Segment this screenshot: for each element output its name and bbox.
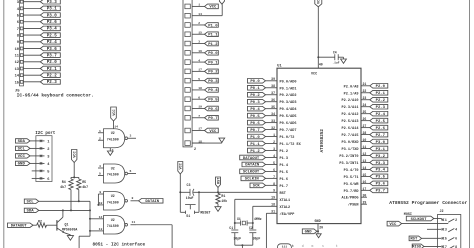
svg-text:9: 9 xyxy=(99,190,101,194)
I2C port pin 2 xyxy=(30,147,50,152)
node P3.4 xyxy=(370,167,388,173)
svg-text:P2.5: P2.5 xyxy=(47,34,58,38)
node P3.3 xyxy=(370,160,388,166)
node VCC at X1 xyxy=(205,128,219,134)
svg-text:SCL: SCL xyxy=(18,148,26,152)
U1 pin 26 P2.5/A13 xyxy=(341,117,369,124)
svg-text:18: 18 xyxy=(198,87,202,90)
wire RST flag stem xyxy=(217,188,219,193)
svg-text:P0.5: P0.5 xyxy=(250,115,260,119)
U1 pin 3 P1.2 xyxy=(266,147,289,154)
svg-text:5: 5 xyxy=(99,172,101,176)
connector J2 body xyxy=(438,210,461,248)
svg-text:P3.4: P3.4 xyxy=(376,169,386,173)
wire RST net to IC xyxy=(198,191,277,193)
svg-text:RST: RST xyxy=(217,177,221,184)
J2 pins 5/6 xyxy=(442,237,457,241)
svg-text:P3.6/WR: P3.6/WR xyxy=(344,182,360,187)
svg-text:16: 16 xyxy=(198,50,202,53)
wire R4 to SDA xyxy=(70,190,72,212)
svg-text:SDA: SDA xyxy=(26,210,34,214)
U1 pin 21 P2.0/A8 xyxy=(344,82,370,89)
svg-text:9: 9 xyxy=(17,41,19,45)
wire R5 to SCL xyxy=(78,190,80,203)
svg-text:P1.7: P1.7 xyxy=(280,185,289,189)
resistor R4 xyxy=(60,179,73,190)
node P2.5 xyxy=(40,33,60,39)
U1 pin 12 P3.2/INT0 xyxy=(339,152,369,159)
U1 pin 9 RST xyxy=(273,189,287,196)
svg-text:P0.1/AD1: P0.1/AD1 xyxy=(280,86,297,91)
svg-text:P2.0/A8: P2.0/A8 xyxy=(344,84,359,89)
wire crystal ground rail xyxy=(235,244,253,248)
node SCLKIN xyxy=(241,176,266,182)
I2C port pin 3 xyxy=(30,155,50,160)
svg-text:2: 2 xyxy=(47,148,49,152)
svg-text:DATAOUT: DATAOUT xyxy=(243,157,260,161)
svg-text:SCLKIN: SCLKIN xyxy=(245,178,260,182)
svg-text:P1.2: P1.2 xyxy=(280,150,289,154)
svg-text:7: 7 xyxy=(17,28,19,32)
U1 pin 19 XTAL1 xyxy=(235,196,290,203)
svg-text:P0.6: P0.6 xyxy=(208,108,218,112)
caption IC-95/44 keyboard connector xyxy=(17,93,94,99)
svg-text:P0.0/AD0: P0.0/AD0 xyxy=(280,79,297,84)
capacitor C2 xyxy=(249,226,260,245)
wire RST to J2 pin 5 xyxy=(422,237,442,239)
node P3.1 xyxy=(370,146,388,152)
svg-text:P3.2/INT0: P3.2/INT0 xyxy=(339,154,358,159)
J5 pin 9 xyxy=(17,40,41,45)
X1 pin 5 xyxy=(185,78,205,83)
J5 pin 13 xyxy=(15,67,41,72)
svg-text:SCLKOUT: SCLKOUT xyxy=(243,171,260,175)
svg-text:P2.2: P2.2 xyxy=(376,99,386,103)
node SCLKOUT xyxy=(240,169,266,175)
ground U1 pin 20 xyxy=(316,234,321,238)
node DATAOUT xyxy=(240,155,266,161)
svg-text:P2.2: P2.2 xyxy=(47,74,58,78)
svg-text:P1.5: P1.5 xyxy=(280,171,289,175)
J2 pins 7/8 xyxy=(442,245,457,248)
svg-text:P0.5: P0.5 xyxy=(208,99,218,103)
ground R1 xyxy=(215,204,221,212)
node P0.5 xyxy=(248,113,266,119)
svg-text:AT89S52 Programmer Connector: AT89S52 Programmer Connector xyxy=(389,200,467,206)
node SCLKOUT at J2 xyxy=(406,216,434,222)
svg-text:6: 6 xyxy=(17,21,19,25)
svg-text:P3.6: P3.6 xyxy=(376,183,386,187)
schematic frame right border xyxy=(469,0,471,248)
node P2.6 xyxy=(370,125,388,131)
svg-text:P0.4/AD4: P0.4/AD4 xyxy=(280,107,298,112)
X1 pin 18 xyxy=(185,87,205,92)
U1 pin 33 P0.6/AD6 xyxy=(266,119,297,126)
svg-text:2: 2 xyxy=(194,148,196,152)
ground gate U2A pin 7 xyxy=(107,148,113,156)
svg-text:10: 10 xyxy=(15,48,19,52)
connector X1 body xyxy=(183,0,196,152)
wire J2 pin 3 stub xyxy=(427,228,442,230)
svg-text:P2.6/A14: P2.6/A14 xyxy=(341,126,359,131)
svg-text:17: 17 xyxy=(198,69,202,72)
U1 pin 27 P2.6/A14 xyxy=(341,124,369,131)
U1 pin 35 P0.4/AD4 xyxy=(266,105,298,112)
U1 pin 5 P1.4 xyxy=(266,161,289,168)
wire XTAL1 branch xyxy=(234,199,236,229)
svg-text:t: t xyxy=(336,244,338,248)
svg-text:GND: GND xyxy=(18,163,26,167)
svg-text:P3.0: P3.0 xyxy=(376,141,386,145)
capacitor C1 xyxy=(229,226,241,245)
svg-text:VCC: VCC xyxy=(113,108,117,115)
svg-text:17: 17 xyxy=(198,128,202,131)
X1 pin 3 xyxy=(185,41,205,46)
svg-text:19: 19 xyxy=(198,106,202,109)
svg-text:4k7: 4k7 xyxy=(82,185,88,189)
U1 pin 38 P0.1/AD1 xyxy=(266,84,297,91)
svg-text:P0.3: P0.3 xyxy=(208,80,218,84)
svg-text:P3.3: P3.3 xyxy=(376,162,386,166)
node P0.2 xyxy=(248,92,266,98)
node P0.7 at X1 xyxy=(205,115,219,121)
svg-text:AT89S8252: AT89S8252 xyxy=(320,129,325,153)
wire VCC to pin 40 xyxy=(317,7,323,68)
svg-text:VCC: VCC xyxy=(209,130,217,134)
svg-text:P3.5: P3.5 xyxy=(376,176,386,180)
svg-text:DATAOUT: DATAOUT xyxy=(11,225,28,229)
svg-text:C4: C4 xyxy=(333,51,337,55)
svg-text:SCLKOUT: SCLKOUT xyxy=(411,218,428,222)
svg-text:4k7: 4k7 xyxy=(60,185,66,189)
node P1.0 xyxy=(248,134,266,140)
node P2.3 xyxy=(40,80,60,86)
U1 pin 25 P2.4/A12 xyxy=(341,110,369,117)
svg-text:1: 1 xyxy=(99,129,101,133)
U1 pin 30 ALE/PROG xyxy=(341,194,367,201)
node P3.7 xyxy=(40,53,60,59)
node P0.1 at X1 xyxy=(205,60,219,66)
I2C port connector body xyxy=(36,136,52,182)
svg-text:P3.7/RD: P3.7/RD xyxy=(344,189,359,194)
svg-text:P3.4/T0: P3.4/T0 xyxy=(344,168,359,173)
J5 pin 14 xyxy=(15,74,41,79)
node P3.6 xyxy=(370,181,388,187)
svg-text:P2.1: P2.1 xyxy=(47,68,58,72)
svg-text:P2.0: P2.0 xyxy=(47,61,58,65)
node P2.4 xyxy=(40,39,60,45)
title block text xyxy=(292,244,338,248)
node P2.1 xyxy=(40,66,60,72)
node VCC at J2 xyxy=(387,221,402,227)
svg-text:8051 - I2C interface: 8051 - I2C interface xyxy=(93,242,146,247)
svg-text:P2.1/A9: P2.1/A9 xyxy=(344,91,359,96)
U1 pin 1 P1.0/T2 xyxy=(266,133,295,140)
X1 pin 17 xyxy=(185,69,205,74)
svg-text:.1uF: .1uF xyxy=(332,62,339,65)
svg-text:C2: C2 xyxy=(249,226,253,230)
svg-text:P3.3/INT1: P3.3/INT1 xyxy=(339,161,358,166)
svg-text:P1.1/T2 EX: P1.1/T2 EX xyxy=(280,142,302,147)
svg-text:1: 1 xyxy=(445,218,447,222)
node P3.4 xyxy=(40,26,60,32)
node P2.7 xyxy=(370,132,388,138)
svg-text:U2: U2 xyxy=(111,194,115,198)
node P1.2 at X1 xyxy=(205,41,219,47)
wire VCC down to C3 xyxy=(179,174,181,212)
svg-text:P0.6/AD6: P0.6/AD6 xyxy=(280,121,297,126)
svg-text:P2.1: P2.1 xyxy=(376,92,386,96)
node P0.1 xyxy=(248,85,266,91)
node P2.2 xyxy=(370,97,388,103)
svg-text:15: 15 xyxy=(15,81,20,85)
svg-text:P3.4: P3.4 xyxy=(47,28,58,32)
svg-text:P1.6: P1.6 xyxy=(280,178,289,182)
svg-text:7: 7 xyxy=(198,115,200,118)
svg-text:P1.3: P1.3 xyxy=(280,157,289,161)
node P0.3 at X1 xyxy=(205,78,219,84)
svg-text:XTAL1: XTAL1 xyxy=(280,199,291,203)
node P2.1 xyxy=(370,90,388,96)
svg-text:P0.6: P0.6 xyxy=(250,122,260,126)
svg-text:4: 4 xyxy=(198,59,200,62)
svg-text:/EA/VPP: /EA/VPP xyxy=(280,212,295,217)
J5 pin 7 xyxy=(17,27,41,32)
caption AT89S52 Programmer Connector xyxy=(389,200,467,206)
svg-text:P3.1: P3.1 xyxy=(47,8,58,12)
svg-text:MPS6509A: MPS6509A xyxy=(62,228,77,232)
J5 pin 8 xyxy=(17,34,41,39)
power flag VCC (reset) xyxy=(178,162,184,175)
node SCL xyxy=(24,199,39,205)
svg-text:2: 2 xyxy=(455,218,457,222)
svg-text:R1: R1 xyxy=(221,194,225,198)
node P2.0 xyxy=(40,60,60,66)
svg-text:P2.3: P2.3 xyxy=(376,106,386,110)
J5 reference label xyxy=(15,89,20,93)
node DATAOUT xyxy=(8,223,34,229)
svg-text:74LS00: 74LS00 xyxy=(107,137,119,141)
svg-text:DATAIN: DATAIN xyxy=(145,200,159,204)
ground X1 pin (bottom) xyxy=(192,138,225,143)
wire SCL xyxy=(39,201,90,248)
node P2.5 xyxy=(370,118,388,124)
svg-text:74LS00: 74LS00 xyxy=(107,224,119,228)
svg-text:P0.4: P0.4 xyxy=(208,89,218,93)
X1 pin 15 xyxy=(185,31,205,36)
svg-text:5: 5 xyxy=(445,237,447,241)
node P0.0 at X1 xyxy=(205,51,219,57)
node SCL xyxy=(16,146,31,152)
svg-text:VCC: VCC xyxy=(318,0,322,4)
svg-text:P2.3: P2.3 xyxy=(47,81,58,85)
wire /EA to ground rail xyxy=(265,213,267,248)
svg-text:10k: 10k xyxy=(221,199,227,203)
X1 pin 14 xyxy=(185,13,205,18)
power flag VCC (gate U2A pin 14) xyxy=(111,107,117,121)
title block oval xyxy=(277,244,291,248)
svg-text:8: 8 xyxy=(132,196,134,200)
op-amp U2B 74LS00 gate 2 xyxy=(98,164,136,183)
node P0.0 xyxy=(248,79,266,85)
svg-text:P3.7: P3.7 xyxy=(376,190,386,194)
svg-text:P0.7: P0.7 xyxy=(250,129,260,133)
U1 pin 10 P3.0/RXD xyxy=(341,138,369,145)
svg-text:30pF: 30pF xyxy=(253,237,261,241)
svg-text:C3: C3 xyxy=(187,183,191,187)
J5 pin 10 xyxy=(15,47,41,52)
svg-text:11: 11 xyxy=(15,55,20,59)
svg-text:P0.3/AD3: P0.3/AD3 xyxy=(280,100,297,105)
J2 pins 3/4 xyxy=(442,228,457,232)
svg-text:P0.4: P0.4 xyxy=(250,108,260,112)
J2 pins 1/2 xyxy=(442,218,457,222)
svg-text:3: 3 xyxy=(445,228,447,232)
node P3.3 xyxy=(40,0,60,5)
connector J5 body xyxy=(20,0,24,86)
node SCK xyxy=(250,183,266,189)
transistor Q1 xyxy=(57,209,77,234)
svg-text:3: 3 xyxy=(198,41,200,44)
X1 pin 7 xyxy=(185,115,205,120)
svg-text:P0.1: P0.1 xyxy=(250,87,260,91)
power flag VCC (pull-ups) xyxy=(72,150,78,163)
svg-text:P3.3: P3.3 xyxy=(47,1,58,5)
svg-text:P3.0: P3.0 xyxy=(47,14,58,18)
svg-text:4MHz: 4MHz xyxy=(254,217,262,221)
U1 pin 36 P0.3/AD3 xyxy=(266,98,297,105)
svg-text:5: 5 xyxy=(198,78,200,81)
node P0.5 at X1 xyxy=(205,97,219,103)
node P0.3 xyxy=(248,99,266,105)
svg-text:6: 6 xyxy=(198,96,200,99)
X1 pin 17 xyxy=(185,128,205,133)
node P1.1 xyxy=(248,141,266,147)
svg-text:1: 1 xyxy=(198,4,200,7)
svg-text:P2.6: P2.6 xyxy=(376,127,386,131)
node P3.7 xyxy=(370,188,388,194)
svg-text:P2.7: P2.7 xyxy=(376,134,386,138)
node P1.2 xyxy=(248,148,266,154)
svg-text:P2.0: P2.0 xyxy=(376,85,386,89)
svg-text:Q1: Q1 xyxy=(65,223,69,227)
wire SCLKOUT to pin 1 xyxy=(434,219,442,220)
svg-text:RST: RST xyxy=(280,192,287,196)
U1 pin 37 P0.2/AD2 xyxy=(266,91,297,98)
svg-text:P0.2: P0.2 xyxy=(250,94,260,98)
svg-text:P0.0: P0.0 xyxy=(250,80,260,84)
svg-text:P1.1: P1.1 xyxy=(208,34,218,38)
svg-text:6: 6 xyxy=(130,169,132,173)
svg-text:U2: U2 xyxy=(111,131,115,135)
X1 pin 18 xyxy=(185,140,205,145)
J5 pin 4 xyxy=(17,7,41,12)
node P2.4 xyxy=(370,111,388,117)
node GND xyxy=(16,161,31,167)
X1 pin 2 xyxy=(185,22,205,27)
node P0.7 xyxy=(248,127,266,133)
svg-text:VCC: VCC xyxy=(180,162,184,169)
schematic frame left border xyxy=(3,0,5,248)
svg-text:2: 2 xyxy=(99,136,101,140)
svg-text:P3.0/RXD: P3.0/RXD xyxy=(341,140,358,145)
svg-text:SCK: SCK xyxy=(253,185,261,189)
svg-text:P1.0: P1.0 xyxy=(208,24,218,28)
caption MOSI xyxy=(404,213,412,217)
svg-text:U1: U1 xyxy=(277,64,281,68)
svg-text:U2: U2 xyxy=(111,166,115,170)
J5 pin 3 xyxy=(17,0,41,5)
svg-text:GND: GND xyxy=(315,220,321,224)
svg-text:6: 6 xyxy=(47,178,49,182)
X1 pin 19 xyxy=(185,106,205,111)
U1 pin 13 P3.3/INT1 xyxy=(339,159,369,166)
I2C port pin 1 xyxy=(30,140,50,145)
svg-text:P0.2: P0.2 xyxy=(208,71,218,75)
J5 pin 11 xyxy=(15,54,41,59)
svg-text:P2.4/A12: P2.4/A12 xyxy=(341,112,358,117)
resistor R2 xyxy=(37,220,47,228)
svg-text:30pF: 30pF xyxy=(234,237,242,241)
svg-text:P2.4: P2.4 xyxy=(376,113,386,117)
I2C port pin 6 xyxy=(32,177,50,182)
U1 pin 2 P1.1/T2 EX xyxy=(266,140,302,147)
wire R2 to Q1 base xyxy=(47,224,57,226)
svg-text:74LS00: 74LS00 xyxy=(107,173,119,177)
node P0.2 at X1 xyxy=(205,69,219,75)
svg-text:4: 4 xyxy=(455,228,457,232)
svg-text:14: 14 xyxy=(198,13,202,16)
IC U1 AT89S8252 body xyxy=(277,64,361,224)
op-amp U2D 74LS00 gate 4 xyxy=(90,215,136,234)
svg-text:GND: GND xyxy=(305,231,313,235)
svg-text:DATAIN: DATAIN xyxy=(245,164,260,168)
svg-text:J2: J2 xyxy=(440,210,444,214)
node P3.0 xyxy=(370,139,388,145)
I2C port pin 5 xyxy=(32,170,51,175)
node SDA xyxy=(16,139,31,145)
U1 pin 22 P2.1/A9 xyxy=(344,89,370,96)
J5 pin 12 xyxy=(15,60,41,65)
svg-text:6: 6 xyxy=(455,237,457,241)
U1 pin 28 P2.7/A15 xyxy=(341,131,369,138)
node P3.5 xyxy=(370,174,388,180)
svg-text:P3.1/TXD: P3.1/TXD xyxy=(341,147,358,152)
U1 pin 11 P3.1/TXD xyxy=(341,145,369,152)
svg-text:P3.6: P3.6 xyxy=(47,48,58,52)
capacitor C4 xyxy=(318,51,343,65)
svg-text:R4: R4 xyxy=(62,180,66,184)
power flag X1 pin (top) xyxy=(205,0,225,16)
node VCC at X1 xyxy=(205,4,219,10)
resistor R5 xyxy=(77,179,89,190)
svg-text:P1.0: P1.0 xyxy=(250,136,260,140)
U1 pin 18 XTAL2 xyxy=(253,203,290,210)
node P2.6 xyxy=(40,19,60,25)
wire MISO to J2 pin 7 xyxy=(424,246,442,248)
node P0.4 xyxy=(248,106,266,112)
svg-text:P2.3/A11: P2.3/A11 xyxy=(341,105,358,110)
svg-text:P0.1: P0.1 xyxy=(208,61,218,65)
node P0.4 at X1 xyxy=(205,88,219,94)
U1 pin 16 P3.6/WR xyxy=(344,180,370,187)
X1 pin 6 xyxy=(185,96,205,101)
op-amp U2C 74LS00 gate 3 xyxy=(97,190,138,210)
svg-text:P0.7/AD7: P0.7/AD7 xyxy=(280,128,297,133)
U1 pin 29 /PSEN xyxy=(348,201,367,208)
svg-text:P3.2: P3.2 xyxy=(376,155,386,159)
svg-text:P3.5/T1: P3.5/T1 xyxy=(344,175,359,180)
